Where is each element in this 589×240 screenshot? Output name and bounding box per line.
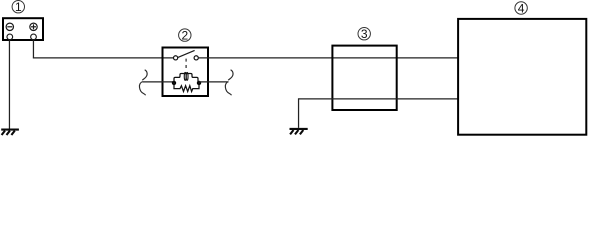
battery terminal plus — [31, 34, 37, 40]
battery B1 box — [3, 18, 43, 40]
resistor branch — [174, 83, 199, 92]
box (4) — [458, 19, 586, 135]
connector stub right — [199, 81, 228, 83]
label 2 — [179, 28, 191, 42]
svg-text:4: 4 — [518, 1, 525, 15]
junction dot right — [197, 81, 201, 85]
switch contact left — [174, 56, 178, 60]
battery minus symbol — [6, 23, 13, 30]
wire minus terminal to ground — [8, 41, 10, 129]
wire top run left (battery to switch) — [33, 57, 174, 59]
wire ground riser — [298, 98, 300, 128]
svg-text:1: 1 — [15, 0, 22, 14]
label 3 — [358, 27, 370, 41]
linkage dashed line — [185, 59, 187, 72]
wire plus terminal down — [32, 41, 34, 59]
box (3) — [332, 46, 396, 110]
battery plus symbol — [30, 23, 37, 30]
relay coil loops — [184, 72, 186, 80]
junction dot left — [172, 81, 176, 85]
ground G1 — [1, 130, 19, 135]
svg-text:3: 3 — [361, 27, 368, 41]
switch blade — [178, 50, 195, 57]
relay coil branch — [174, 74, 198, 83]
svg-text:2: 2 — [181, 28, 188, 42]
connector stub left — [143, 81, 175, 83]
wire top run right (switch to box 4) — [198, 57, 458, 59]
ground G2 — [290, 129, 308, 135]
connector symbol right — [225, 70, 233, 96]
wire lower run (ground riser to box 4) — [299, 98, 459, 100]
relay box (2) — [163, 48, 209, 97]
switch contact right — [194, 56, 198, 60]
battery terminal minus — [7, 34, 13, 40]
label 1 — [12, 0, 24, 14]
label 4 — [515, 1, 527, 15]
connector symbol left — [139, 70, 147, 96]
